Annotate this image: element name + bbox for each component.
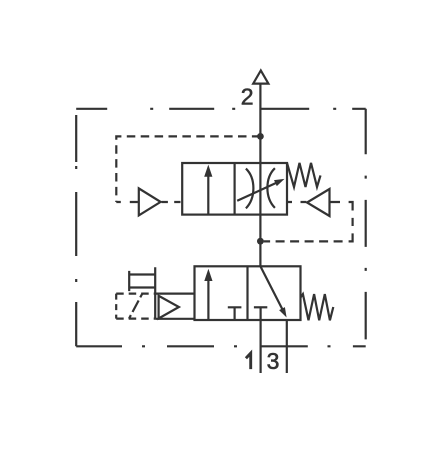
port 1 label	[246, 353, 251, 369]
wire: dashed pilot line right (to node B)	[264, 202, 353, 241]
manual override dashed box	[116, 293, 155, 295]
exhaust triangle port 2	[253, 71, 268, 84]
solenoid coil	[129, 267, 155, 319]
V2 blocked port T (left box)	[228, 307, 242, 320]
pilot channel to valve	[155, 294, 194, 319]
wire: dashed pilot line left (from node A to left pilot)	[116, 136, 260, 202]
valve V2 body	[195, 266, 301, 320]
node B junction dot	[257, 238, 264, 245]
valve V1 body	[182, 163, 287, 215]
outer enclosure border right	[365, 109, 367, 346]
wire: dashed pilot line right (valve to right pilot)	[287, 201, 306, 203]
outer enclosure border bottom	[76, 345, 366, 347]
V2 blocked port T (right box)	[254, 306, 267, 308]
V2 spring	[301, 294, 334, 320]
outer enclosure border left	[75, 109, 77, 346]
pilot triangle left	[139, 188, 161, 215]
V1 throttle adjustment arrow	[237, 183, 276, 201]
svg-text:2: 2	[241, 84, 254, 110]
node A junction dot	[257, 133, 264, 140]
pilot triangle right	[307, 189, 330, 216]
V2 flow path diagonal 2 to 3 with arrow	[260, 266, 282, 309]
manual override diagonal	[129, 294, 142, 319]
V1 flow arrow up (left box)	[207, 177, 209, 215]
valve V2 division	[246, 266, 248, 320]
wire: main vertical line port 2	[259, 84, 261, 267]
V2 flow arrow up (left box)	[207, 281, 209, 320]
valve V1 division	[234, 163, 236, 215]
outer enclosure border top	[76, 108, 366, 110]
svg-text:3: 3	[267, 348, 280, 374]
wire: port 1 line	[260, 307, 262, 373]
V1 adjustable restrictor arcs	[246, 169, 254, 209]
pilot triangle V2	[159, 296, 179, 319]
V1 spring	[287, 163, 321, 187]
wire: port 3 line	[286, 320, 288, 373]
